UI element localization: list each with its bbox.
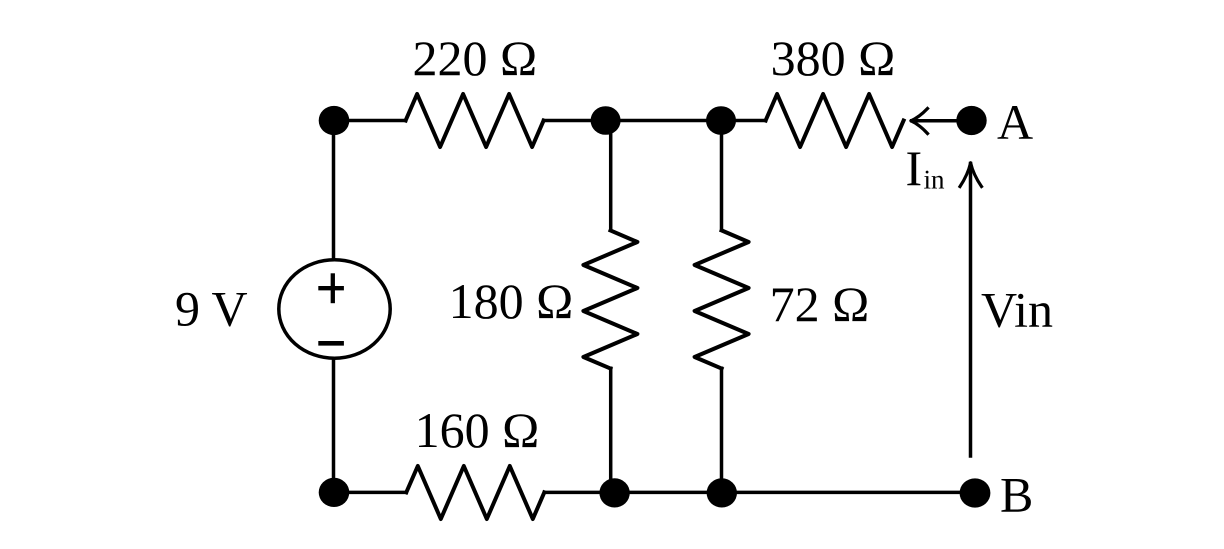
voltage source V1 ellipse (279, 260, 390, 358)
label 180 ohm (449, 273, 574, 329)
wire arrow shaft Iin (node A to arrow tip) (912, 119, 957, 123)
wire 180 ohm rail lower (609, 368, 613, 492)
wire bottom mid (160 ohm to node E) (544, 491, 614, 495)
label node A (997, 94, 1033, 150)
arrowhead Iin pointing left (911, 109, 928, 134)
wire 180 ohm rail upper (609, 121, 613, 231)
wire node C to node D (606, 119, 721, 123)
minus sign of source (318, 341, 344, 346)
resistor R3 160 ohm (406, 466, 544, 519)
node A terminal dot (956, 106, 986, 135)
svg-text:9 V: 9 V (175, 281, 248, 337)
node B terminal dot (960, 478, 991, 507)
wire left rail upper (node to source +) (332, 121, 336, 260)
plus sign of source (318, 273, 344, 303)
svg-text:220 Ω: 220 Ω (412, 30, 537, 86)
wire node D to 380 ohm (721, 119, 766, 123)
label Iin (906, 140, 945, 196)
wire top-mid (220 ohm to node C) (544, 119, 606, 123)
label 9 V (175, 281, 248, 337)
wire node F to node B (722, 491, 975, 495)
svg-text:180 Ω: 180 Ω (449, 273, 574, 329)
svg-text:160 Ω: 160 Ω (415, 402, 540, 458)
svg-text:B: B (1000, 467, 1033, 523)
junction dot bottom node F (707, 478, 737, 507)
label node B (1000, 467, 1033, 523)
label 220 ohm (412, 30, 537, 86)
label 160 ohm (415, 402, 540, 458)
arrowhead Vin pointing up (960, 163, 982, 187)
resistor R4 180 ohm vertical (583, 230, 637, 368)
svg-text:72 Ω: 72 Ω (770, 276, 870, 332)
resistor R5 72 ohm vertical (695, 230, 749, 368)
wire 72 ohm rail upper (720, 121, 724, 231)
junction dot bottom node E (599, 478, 629, 507)
label Vin (981, 281, 1053, 337)
junction dot top-left (319, 106, 350, 135)
junction dot bottom-left (319, 478, 350, 507)
wire 72 ohm rail lower (720, 368, 724, 492)
label 380 ohm (771, 30, 896, 86)
junction dot top node D (706, 106, 736, 135)
wire top-left (node to 220 ohm) (334, 119, 406, 123)
resistor R1 220 ohm (406, 94, 544, 147)
svg-text:A: A (997, 94, 1033, 150)
wire bottom-left (node to 160 ohm) (334, 491, 406, 495)
svg-text:380 Ω: 380 Ω (771, 30, 896, 86)
svg-text:Vin: Vin (981, 281, 1053, 337)
junction dot top node C (591, 106, 621, 135)
arrow Vin shaft vertical (969, 164, 973, 457)
svg-text:I: I (906, 140, 923, 196)
wire left rail lower (source - to bottom node) (332, 359, 336, 493)
wire node E to node F (615, 491, 722, 495)
resistor R2 380 ohm (766, 94, 904, 147)
label 72 ohm (770, 276, 870, 332)
